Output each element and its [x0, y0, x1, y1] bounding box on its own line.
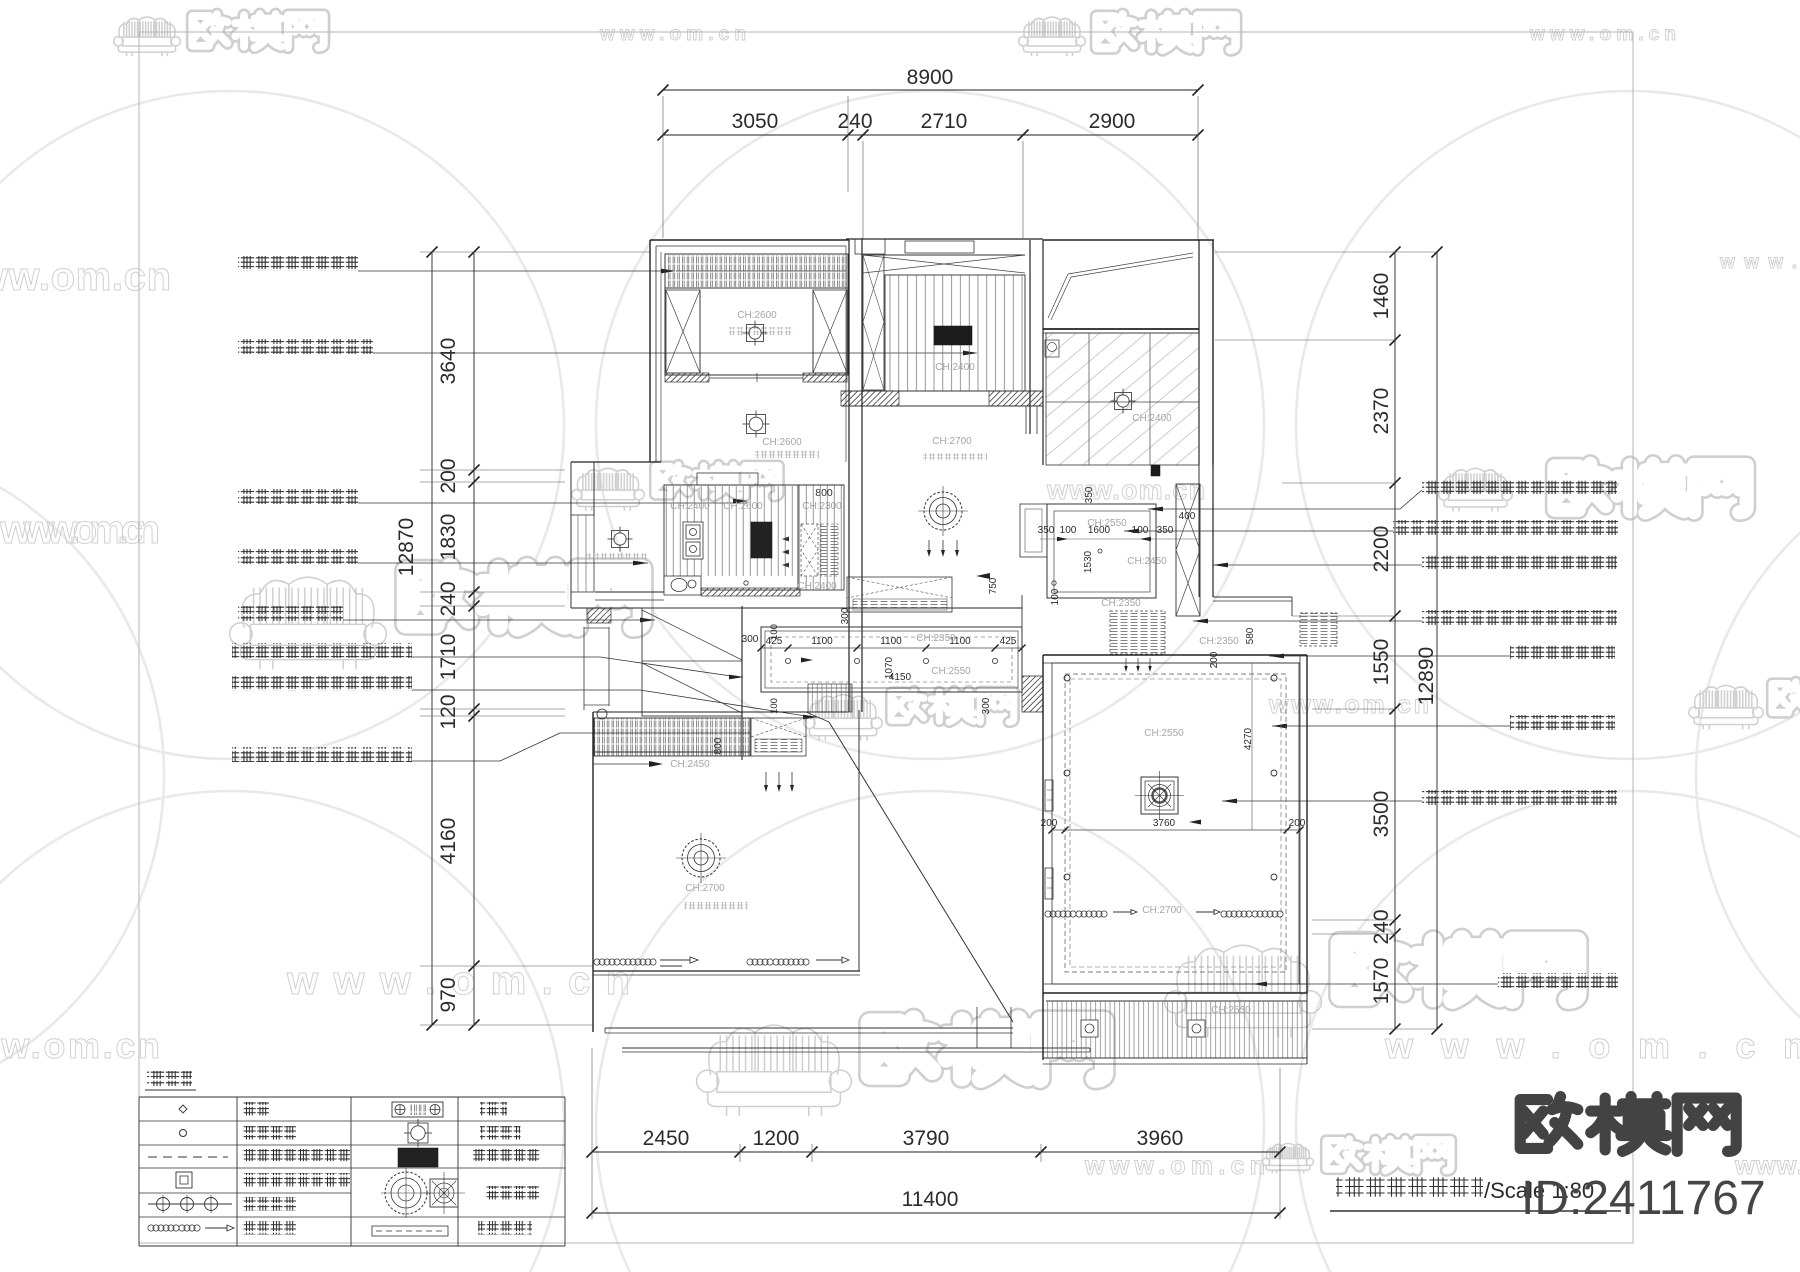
svg-text:2900: 2900: [1089, 110, 1136, 133]
three down arrows dining: [928, 540, 930, 553]
kitchen X column: [1176, 484, 1200, 616]
big watermark logo OMW dark: [1520, 1097, 1736, 1152]
svg-text:1200: 1200: [753, 1127, 800, 1150]
right dimension chain segments: [1394, 252, 1396, 1029]
svg-text:www.om.cn: www.om.cn: [599, 24, 746, 45]
svg-text:CH:2400: CH:2400: [670, 501, 710, 512]
svg-text:3500: 3500: [1370, 791, 1393, 838]
watermark logo: [1263, 1139, 1451, 1173]
svg-text:ID:2411767: ID:2411767: [1521, 1172, 1766, 1225]
watermark logo: [572, 465, 779, 511]
svg-text:3050: 3050: [732, 110, 779, 133]
wall right of dining with hatch: [1021, 595, 1023, 676]
svg-text:100: 100: [1050, 588, 1061, 605]
left wall window protrusion: [570, 462, 572, 608]
svg-text:12870: 12870: [395, 518, 418, 576]
wall: middle top block left wall: [861, 238, 863, 712]
svg-text:240: 240: [837, 110, 872, 133]
rooms bottom wall y608: [571, 607, 1022, 609]
svg-text:CH:2550: CH:2550: [931, 666, 971, 677]
top dimension chain 3050/240/2710/2900: [663, 134, 1198, 136]
svg-text:3790: 3790: [903, 1127, 950, 1150]
svg-text:12890: 12890: [1415, 647, 1438, 705]
three down arrows living: [765, 772, 767, 788]
svg-text:www.om.cn: www.om.cn: [1046, 475, 1205, 505]
black fill rect in middle-top room: [934, 326, 972, 345]
svg-text:CH:2400: CH:2400: [935, 362, 975, 373]
living room chandelier: [676, 833, 726, 883]
svg-text:CH:2700: CH:2700: [932, 436, 972, 447]
middle-top block plank stripes: [885, 275, 1025, 391]
svg-text:1830: 1830: [437, 514, 460, 561]
svg-text:www.om.cn: www.om.cn: [1084, 1152, 1265, 1180]
top dimension chain 8900: [663, 89, 1198, 91]
bottom dimension chain 11400: [592, 1212, 1280, 1214]
master bedroom ceiling rects: [1052, 663, 1299, 984]
left label: an cang T5 nuan guang deng dai: [238, 606, 343, 621]
wall between middle block and sunroom: [1029, 240, 1031, 434]
bottom extension lines: [591, 1048, 593, 1219]
left label: cheng pin ding zuo shan mu ban diao ding: [238, 339, 373, 354]
legend row1: spotlight: [179, 1105, 187, 1113]
window band top-left room: [665, 254, 848, 288]
svg-text:1530: 1530: [1083, 550, 1094, 573]
kitchen walls right side: [1198, 465, 1200, 597]
master bedroom outer walls: [1043, 654, 1307, 656]
svg-text:1570: 1570: [1370, 958, 1393, 1005]
master dim line 200/3760/200: [1052, 829, 1300, 831]
master chandelier ornate: [1135, 771, 1184, 820]
svg-text:CH:2350: CH:2350: [916, 633, 956, 644]
vanity counter with sink: [664, 576, 701, 595]
left label: xi mu gong ban shua bai chuang tao: [238, 256, 358, 271]
svg-text:970: 970: [437, 977, 460, 1012]
svg-text:2710: 2710: [921, 110, 968, 133]
svg-text:4270: 4270: [1243, 727, 1254, 750]
right label: an cang T5 nuan guang deng dai 1: [1510, 645, 1615, 660]
living vent box: [751, 718, 806, 756]
svg-text:CH:2550: CH:2550: [1211, 1005, 1251, 1016]
wall: bedroom1 right wall: [848, 240, 850, 712]
ceiling lamp symbol: [743, 411, 770, 438]
curtain scallop: [1221, 911, 1283, 917]
watermark logo: [1019, 15, 1236, 57]
right dimension chain 12890: [1436, 252, 1438, 1029]
svg-text:100: 100: [769, 624, 780, 640]
diagonal wall living to terrace: [829, 722, 1013, 1022]
wall right of stairs: [741, 606, 743, 760]
svg-text:CH:2350: CH:2350: [1101, 598, 1141, 609]
svg-text:11400: 11400: [902, 1188, 959, 1211]
curtain scallop: [1045, 911, 1107, 917]
left chain extension lines: [420, 251, 651, 253]
right label: shan mu ban diao ding you qing qi: [1498, 973, 1618, 988]
watermark logo: [114, 14, 324, 56]
svg-text:200: 200: [1209, 651, 1220, 668]
svg-text:CH:2450: CH:2450: [1127, 556, 1167, 567]
svg-text:CH:2400: CH:2400: [797, 581, 837, 592]
svg-text:580: 580: [1245, 627, 1256, 644]
middle-top block: top wall and lintel boxes: [846, 238, 1043, 240]
page border frame: [139, 32, 1633, 1243]
legend row1: yuba symbol: [392, 1102, 443, 1117]
svg-text:1100: 1100: [880, 636, 902, 647]
svg-text:800: 800: [713, 737, 724, 754]
kitchen vent boxes: [1110, 611, 1165, 654]
ceiling lamp symbol: [1111, 389, 1136, 414]
svg-text:200: 200: [437, 458, 460, 493]
sunroom roof diagonals: [1048, 274, 1068, 318]
watermark arcs: [0, 91, 564, 759]
kitchen shaft box: [1020, 504, 1047, 557]
svg-text:200: 200: [1041, 818, 1058, 829]
sill hatch strip below bathroom: [701, 588, 800, 596]
svg-text:300: 300: [840, 607, 851, 624]
svg-text:240: 240: [1370, 909, 1393, 944]
svg-text:CH:2550: CH:2550: [1144, 728, 1184, 739]
svg-text:3960: 3960: [1137, 1127, 1184, 1150]
corridor ceiling band 4150: [761, 627, 1022, 692]
black mosaic rect bathroom: [751, 522, 772, 558]
right label: zhi mian shi gao ban shua bai se ru jiao qi 1: [1422, 479, 1617, 494]
left dimension chain segments: [473, 252, 475, 1025]
left label: shan mu ban diao ding you qing qi 2: [238, 549, 358, 564]
svg-text:www.om.cn: www.om.cn: [1268, 691, 1429, 719]
legend rows4-5: art chandelier symbols: [381, 1168, 431, 1218]
corridor lower hatch block: [808, 684, 852, 712]
svg-text:300: 300: [981, 697, 992, 714]
left label: zhi mian shi gao ban 3: [232, 747, 412, 762]
balcony lamp boxes: [1081, 1020, 1098, 1037]
living room top band CH2450: [593, 711, 847, 713]
stairs run: [642, 608, 742, 716]
svg-text:8900: 8900: [907, 66, 954, 89]
bathroom plank ceiling room: [664, 485, 798, 590]
terrace steps bottom: [605, 1027, 1013, 1029]
legend row4: single head spot: [176, 1172, 192, 1188]
svg-text:1550: 1550: [1370, 639, 1393, 686]
svg-text:3760: 3760: [1153, 818, 1176, 829]
sunroom window track: [1043, 328, 1199, 330]
svg-text:240: 240: [437, 581, 460, 616]
bedroom2 lower rooms: divider at y462: [571, 461, 661, 463]
svg-text:www.om.cn: www.om.cn: [0, 508, 160, 552]
svg-text:CH:2550: CH:2550: [1087, 518, 1127, 529]
svg-text:www.om.cn: www.om.cn: [1384, 1025, 1800, 1066]
right label: zhi mian shi gao ban 5: [1422, 790, 1617, 805]
svg-text:100: 100: [1060, 525, 1077, 536]
svg-text:750: 750: [988, 577, 999, 594]
watermark logo: [804, 691, 1014, 741]
wall: top-left room outer walls: [650, 239, 849, 241]
kitchen ceiling box die ji: [1047, 504, 1156, 598]
wardrobe X strip left of bedroom2: [863, 255, 884, 390]
master bedroom door ladders on left wall: [1045, 780, 1053, 811]
bathtub symbol: [683, 522, 703, 559]
svg-text:1460: 1460: [1370, 273, 1393, 320]
svg-text:2370: 2370: [1370, 388, 1393, 435]
watermark logo: [697, 1019, 1105, 1116]
ceiling lamp symbol: [743, 321, 768, 346]
svg-text:350: 350: [1038, 525, 1055, 536]
bottom dimension chain 2450/1200/3790/3960: [592, 1151, 1280, 1153]
watermark logo: [1439, 464, 1747, 513]
svg-text:4160: 4160: [437, 818, 460, 865]
master balcony deck: [1046, 1000, 1307, 1002]
svg-text:CH:2700: CH:2700: [1142, 905, 1182, 916]
legend row3: T5 strip: [148, 1156, 228, 1158]
svg-text:2450: 2450: [643, 1127, 690, 1150]
middle-top block bowtie diagonals: [863, 255, 1025, 273]
entry wall verticals: [583, 627, 585, 710]
svg-text:www.om.cn: www.om.cn: [1529, 24, 1676, 45]
legend row5: art pendant bar: [148, 1203, 232, 1205]
legend row2: downlight: [180, 1130, 187, 1137]
right chain extension lines: [1215, 251, 1437, 253]
svg-text:425: 425: [1000, 636, 1017, 647]
left dimension chain 12870 line: [431, 252, 433, 1025]
curtain scallop: [148, 1225, 200, 1231]
ceiling lamp symbol: [608, 527, 633, 552]
watermark logo: [1165, 939, 1578, 1037]
drawing title: yi ceng ding mian bu zhi tu / Scale 1:80: [1336, 1176, 1483, 1197]
bedroom1 room box with X columns: [665, 288, 848, 375]
svg-text:3640: 3640: [437, 338, 460, 385]
svg-text:350: 350: [1084, 486, 1095, 503]
svg-text:100: 100: [1132, 525, 1149, 536]
left label: shan mu ban diao ding you qing qi 1: [238, 489, 358, 504]
ceiling lamp symbol: [404, 1119, 432, 1147]
svg-text:CH:2600: CH:2600: [762, 437, 802, 448]
small black rect below sunroom: [1151, 465, 1160, 476]
svg-text:4150: 4150: [889, 672, 912, 683]
svg-text:CH:2350: CH:2350: [1199, 636, 1239, 647]
kitchen wall bottom-left: [595, 591, 664, 593]
curtain scallop: [594, 959, 656, 965]
svg-text:120: 120: [437, 694, 460, 729]
svg-text:300: 300: [742, 634, 759, 645]
svg-text:CH:2600: CH:2600: [723, 501, 763, 512]
right label: zhi mian shi gao ban 3: [1422, 554, 1617, 569]
dining room wall with hatch below middle-top: [841, 390, 1043, 392]
watermark logo: [1689, 682, 1800, 729]
wall hatch block left: [587, 608, 611, 623]
right label: zhi mian shi gao ban die ji diao ding 2: [1393, 520, 1618, 535]
svg-text:CH:2450: CH:2450: [670, 759, 710, 770]
svg-text:200: 200: [1289, 818, 1306, 829]
living room walls: [592, 712, 594, 1032]
left label: zhi mian shi gao ban 1: [232, 643, 412, 658]
svg-text:350: 350: [1157, 525, 1174, 536]
master downlights: [1064, 675, 1070, 681]
left label: zhi mian shi gao ban 2: [232, 676, 412, 691]
bathroom curtain arrows: [782, 537, 789, 568]
sill hatches under bedroom1: [665, 373, 709, 382]
svg-text:1100: 1100: [811, 636, 833, 647]
right label: an cang T5 nuan guang deng dai 2: [1510, 715, 1615, 730]
svg-text:CH:2700: CH:2700: [685, 883, 725, 894]
svg-text:CH:2400: CH:2400: [1132, 413, 1172, 424]
curtain scallop: [747, 959, 809, 965]
svg-text:400: 400: [1179, 511, 1196, 522]
bathroom top wall and door step: [664, 484, 844, 486]
watermark logo: [230, 567, 642, 669]
sunroom corner drain box: [1045, 340, 1059, 357]
svg-text:CH:2600: CH:2600: [737, 310, 777, 321]
svg-text:www.om.cn: www.om.cn: [0, 255, 171, 299]
top extension lines: [662, 96, 664, 238]
legend table ming xi biao: [147, 1071, 192, 1086]
corridor downlight dim row: [761, 647, 1022, 649]
sunroom glass hatch: [1046, 333, 1199, 465]
sunroom outer walls: [1043, 239, 1214, 241]
right label: zhi mian shi gao ban 4: [1422, 610, 1617, 625]
